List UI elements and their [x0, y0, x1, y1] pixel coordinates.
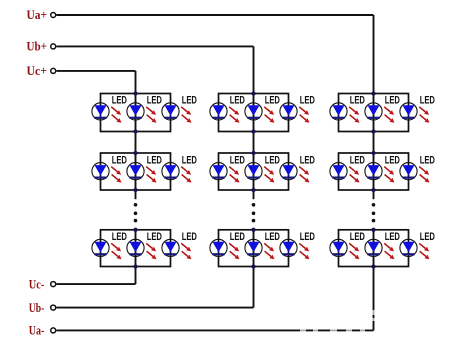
wire Ub- vertical riser from column 2	[253, 266, 255, 308]
wire Ua+ horizontal feed	[57, 14, 374, 16]
junction node r2c2 bottom	[251, 188, 255, 192]
LED D11c light-emission arrows	[181, 107, 191, 123]
junction node r2c2 top	[251, 151, 255, 155]
svg-text:LED: LED	[350, 155, 365, 167]
dotted continuation column 2	[252, 203, 256, 222]
junction node r2c1 top	[133, 151, 137, 155]
LED D33b symbol	[365, 239, 382, 256]
svg-text:LED: LED	[230, 95, 245, 107]
wire module r1c2 centre branch	[253, 94, 255, 132]
svg-text:LED: LED	[385, 231, 400, 243]
junction node r3c3 bottom	[371, 264, 375, 268]
LED D31a symbol	[92, 239, 109, 256]
svg-text:LED: LED	[182, 231, 197, 243]
wire module r3c2 centre branch	[253, 230, 255, 267]
LED D23a symbol	[330, 163, 347, 180]
LED D23c light-emission arrows	[419, 167, 429, 183]
LED D22b light-emission arrows	[264, 167, 274, 183]
wire module r1c1 centre branch	[135, 94, 137, 132]
LED D13a light-emission arrows	[349, 107, 359, 123]
LED D12c symbol	[280, 103, 297, 120]
svg-text:LED: LED	[300, 231, 315, 243]
wire Ub- horizontal return	[57, 307, 254, 309]
LED D12c light-emission arrows	[299, 107, 309, 123]
svg-text:LED: LED	[350, 95, 365, 107]
LED D23a light-emission arrows	[349, 167, 359, 183]
LED D22b symbol	[245, 163, 262, 180]
LED D21b symbol	[127, 163, 144, 180]
LED D11b symbol	[127, 103, 144, 120]
LED D22a light-emission arrows	[229, 167, 239, 183]
wire Ua- vertical riser from column 3	[373, 266, 375, 331]
LED D23b symbol	[365, 163, 382, 180]
LED D33c light-emission arrows	[419, 243, 429, 259]
svg-text:Uc+: Uc+	[27, 64, 48, 78]
wire module r3c3 centre branch	[373, 230, 375, 267]
LED D31a light-emission arrows	[111, 243, 121, 259]
junction node r1c3 top	[371, 91, 375, 95]
junction node r3c1 top	[133, 228, 137, 232]
svg-text:LED: LED	[265, 155, 280, 167]
LED module row 3 column 1 parallel box	[101, 230, 171, 267]
svg-text:LED: LED	[385, 155, 400, 167]
LED D31b light-emission arrows	[146, 243, 156, 259]
LED D13a symbol	[330, 103, 347, 120]
LED D33b light-emission arrows	[384, 243, 394, 259]
wire module r2c1 centre branch	[135, 153, 137, 190]
svg-text:LED: LED	[182, 155, 197, 167]
LED D11a light-emission arrows	[111, 107, 121, 123]
svg-text:LED: LED	[147, 95, 162, 107]
junction node r3c2 top	[251, 228, 255, 232]
LED D12b symbol	[245, 103, 262, 120]
LED D32b light-emission arrows	[264, 243, 274, 259]
LED module row 1 column 2 parallel box	[219, 94, 289, 132]
svg-text:Ua+: Ua+	[27, 8, 48, 22]
LED D12a light-emission arrows	[229, 107, 239, 123]
svg-text:LED: LED	[300, 95, 315, 107]
junction node r2c3 bottom	[371, 188, 375, 192]
terminal Ub-	[51, 305, 56, 310]
wire column 3 segment between row 1 and row 2	[373, 132, 375, 154]
wire Uc- vertical riser from column 1	[135, 266, 137, 285]
LED module row 3 column 3 parallel box	[339, 230, 409, 267]
svg-text:LED: LED	[230, 155, 245, 167]
LED module row 2 column 3 parallel box	[339, 153, 409, 190]
svg-text:LED: LED	[420, 95, 435, 107]
LED D23b light-emission arrows	[384, 167, 394, 183]
wire Ua+ vertical drop to column 3	[373, 15, 375, 95]
wire Uc- horizontal return	[57, 283, 136, 285]
svg-text:LED: LED	[300, 155, 315, 167]
junction node r1c1 bottom	[133, 129, 137, 133]
LED module row 2 column 2 parallel box	[219, 153, 289, 190]
LED D13c symbol	[400, 103, 417, 120]
LED D11b light-emission arrows	[146, 107, 156, 123]
LED D22c light-emission arrows	[299, 167, 309, 183]
wire column 1 stub below row 2	[135, 190, 137, 199]
LED D33c symbol	[400, 239, 417, 256]
wire module r2c2 centre branch	[253, 153, 255, 190]
wire module r1c3 centre branch	[373, 94, 375, 132]
LED D22c symbol	[280, 163, 297, 180]
wire Ub+ vertical drop to column 2	[253, 46, 255, 94]
svg-text:Ua-: Ua-	[29, 324, 45, 338]
wire column 1 segment between row 1 and row 2	[135, 132, 137, 154]
terminal Ua-	[51, 328, 56, 333]
LED D11c symbol	[162, 103, 179, 120]
terminal Uc+	[51, 68, 56, 73]
LED D31b symbol	[127, 239, 144, 256]
LED D21a symbol	[92, 163, 109, 180]
LED module row 3 column 2 parallel box	[219, 230, 289, 267]
junction node r3c3 top	[371, 228, 375, 232]
svg-text:LED: LED	[147, 231, 162, 243]
LED D32b symbol	[245, 239, 262, 256]
dotted continuation column 3	[372, 203, 376, 222]
svg-text:Uc-: Uc-	[29, 277, 45, 291]
junction node r1c2 bottom	[251, 129, 255, 133]
LED D22a symbol	[210, 163, 227, 180]
terminal Ub+	[51, 44, 56, 49]
LED D21b light-emission arrows	[146, 167, 156, 183]
wire Ua- horizontal return	[57, 329, 374, 331]
svg-text:LED: LED	[265, 95, 280, 107]
svg-text:LED: LED	[265, 231, 280, 243]
LED D31c symbol	[162, 239, 179, 256]
LED D32c symbol	[280, 239, 297, 256]
svg-text:LED: LED	[112, 231, 127, 243]
wire column 2 stub below row 2	[253, 190, 255, 199]
LED D12b light-emission arrows	[264, 107, 274, 123]
LED D13b light-emission arrows	[384, 107, 394, 123]
LED module row 2 column 1 parallel box	[101, 153, 171, 190]
LED D21c light-emission arrows	[181, 167, 191, 183]
LED D33a light-emission arrows	[349, 243, 359, 259]
wire Uc+ vertical drop to column 1	[135, 71, 137, 95]
LED D32a light-emission arrows	[229, 243, 239, 259]
svg-text:LED: LED	[112, 155, 127, 167]
wire module r2c3 centre branch	[373, 153, 375, 190]
junction node r3c2 bottom	[251, 264, 255, 268]
wire Ub+ horizontal feed	[57, 45, 254, 47]
faded (watermarked) patches over Ua- wire	[300, 310, 376, 333]
svg-text:LED: LED	[147, 155, 162, 167]
svg-text:LED: LED	[385, 95, 400, 107]
svg-text:LED: LED	[230, 231, 245, 243]
dotted continuation column 1	[134, 203, 138, 222]
LED D21c symbol	[162, 163, 179, 180]
wire column 3 stub below row 2	[373, 190, 375, 199]
wire Uc+ horizontal feed	[57, 70, 136, 72]
svg-text:LED: LED	[420, 155, 435, 167]
terminal Uc-	[51, 282, 56, 287]
junction node r1c3 bottom	[371, 129, 375, 133]
LED D32c light-emission arrows	[299, 243, 309, 259]
LED D31c light-emission arrows	[181, 243, 191, 259]
svg-text:Ub-: Ub-	[29, 301, 45, 315]
wire module r3c1 centre branch	[135, 230, 137, 267]
LED module row 1 column 3 parallel box	[339, 94, 409, 132]
terminal Ua+	[51, 13, 56, 18]
svg-text:LED: LED	[350, 231, 365, 243]
junction node r3c1 bottom	[133, 264, 137, 268]
LED D32a symbol	[210, 239, 227, 256]
svg-text:LED: LED	[182, 95, 197, 107]
junction node r2c1 bottom	[133, 188, 137, 192]
svg-text:Ub+: Ub+	[27, 40, 48, 54]
junction node r2c3 top	[371, 151, 375, 155]
LED module row 1 column 1 parallel box	[101, 94, 171, 132]
svg-text:LED: LED	[112, 95, 127, 107]
svg-text:LED: LED	[420, 231, 435, 243]
LED D21a light-emission arrows	[111, 167, 121, 183]
LED D13c light-emission arrows	[419, 107, 429, 123]
LED D23c symbol	[400, 163, 417, 180]
junction node r1c1 top	[133, 91, 137, 95]
junction node r1c2 top	[251, 91, 255, 95]
LED D11a symbol	[92, 103, 109, 120]
LED D33a symbol	[330, 239, 347, 256]
LED D12a symbol	[210, 103, 227, 120]
LED D13b symbol	[365, 103, 382, 120]
wire column 2 segment between row 1 and row 2	[253, 132, 255, 154]
